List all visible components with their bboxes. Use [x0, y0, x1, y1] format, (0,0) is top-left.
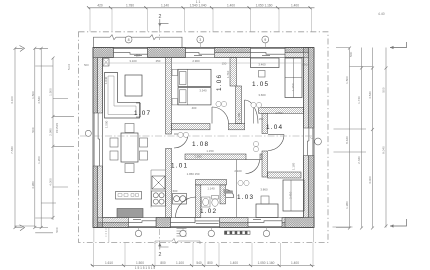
sofa L-shape living room [105, 73, 141, 119]
section mark 2 bottom with tick line [155, 239, 200, 259]
svg-text:250: 250 [156, 59, 161, 63]
wall face lines [93, 48, 314, 228]
svg-text:540: 540 [196, 261, 202, 265]
interior door-tag bubble pairs [178, 101, 262, 185]
svg-text:3.460: 3.460 [258, 63, 266, 67]
svg-text:1.760: 1.760 [275, 111, 283, 115]
interior dim line below top wall [104, 59, 308, 67]
svg-text:1.540 1.040: 1.540 1.040 [190, 4, 207, 8]
svg-text:1.500: 1.500 [136, 261, 144, 265]
LEFT margin dimension lines [15, 48, 53, 227]
svg-text:1.500: 1.500 [49, 88, 53, 96]
svg-text:1.100: 1.100 [176, 261, 184, 265]
washer dryer [173, 194, 187, 205]
bottom dimension texts [105, 261, 299, 270]
grid bubble left on section line [85, 130, 91, 136]
scale bar [225, 231, 251, 234]
svg-text:9: 9 [264, 38, 266, 42]
bottom grid bubbles [135, 228, 269, 237]
svg-text:1.100: 1.100 [237, 112, 241, 120]
svg-text:1.05: 1.05 [252, 81, 269, 88]
svg-text:3.860: 3.860 [260, 188, 268, 192]
svg-text:2.960: 2.960 [192, 59, 200, 63]
stove 4 burners [152, 191, 166, 206]
svg-text:3.650: 3.650 [194, 155, 202, 159]
nightstands 1.06 [172, 69, 178, 75]
svg-text:1.02: 1.02 [200, 208, 217, 215]
svg-text:1.140: 1.140 [161, 4, 169, 8]
svg-text:1 5 1 5 1 5 1 5: 1 5 1 5 1 5 1 5 [135, 266, 156, 270]
interior wall W1 vertical (living | halls) [166, 58, 172, 135]
door D4 to 1.04 [268, 135, 284, 151]
BOTTOM dimension line [91, 264, 315, 267]
svg-text:2: 2 [159, 252, 162, 258]
corner block bottom-right full checker [285, 218, 314, 228]
right tick marks [333, 47, 388, 230]
pier full checker bottom wall [156, 218, 171, 228]
svg-text:1.050 1.160: 1.050 1.160 [258, 261, 275, 265]
svg-text:8.640: 8.640 [345, 136, 349, 144]
svg-text:150: 150 [259, 117, 264, 121]
svg-text:1.400: 1.400 [291, 261, 299, 265]
section line 1-1 horizontal dash-dot [80, 135, 314, 137]
dining chairs [110, 124, 148, 173]
wardrobe 1.03 [283, 180, 304, 211]
svg-text:1.400: 1.400 [230, 261, 238, 265]
bathroom right partition [220, 185, 226, 204]
washbasin 1.02 [202, 197, 211, 207]
window bottom 1 [129, 217, 157, 228]
svg-text:4.980: 4.980 [31, 181, 35, 189]
svg-text:1.610: 1.610 [105, 261, 113, 265]
window top 1 [114, 47, 148, 58]
svg-text:1.01: 1.01 [171, 163, 188, 170]
interior wall H3 (1.04 bottom) [268, 172, 302, 178]
svg-text:560: 560 [303, 63, 308, 67]
svg-text:1.710: 1.710 [226, 70, 230, 78]
svg-text:1.980: 1.980 [345, 201, 349, 209]
eaves line top-left [94, 35, 183, 48]
svg-text:1.500: 1.500 [31, 91, 35, 99]
bed 1.06 lower [178, 88, 211, 105]
svg-text:2.410: 2.410 [289, 191, 293, 199]
kitchen counter island [116, 192, 142, 200]
coffee table [125, 75, 142, 96]
interior wall H4 (1.08 bottom) [185, 154, 246, 160]
svg-text:2.100: 2.100 [234, 169, 242, 173]
dotted mark below wall left [105, 229, 107, 237]
svg-text:500: 500 [382, 87, 386, 92]
svg-text:4.530: 4.530 [37, 96, 41, 104]
section line 2-2 vertical stubs [159, 27, 161, 249]
door D1 living to hall [174, 134, 188, 148]
svg-text:5.04: 5.04 [67, 64, 71, 70]
exterior wall right [304, 48, 315, 228]
desk 1.03 [256, 204, 278, 218]
svg-text:1.500: 1.500 [105, 120, 109, 128]
scattered interior dim texts [173, 89, 283, 194]
svg-text:7.830: 7.830 [10, 146, 14, 154]
chair 1.05 [259, 71, 266, 78]
svg-text:500: 500 [55, 227, 59, 232]
svg-text:1.400: 1.400 [227, 4, 235, 8]
entrance steps [177, 229, 187, 237]
door D8 hall to 1.03 zone [246, 160, 260, 174]
svg-text:400: 400 [192, 106, 197, 110]
svg-text:500: 500 [31, 127, 35, 132]
window bottom 2 [248, 217, 282, 228]
svg-text:1.06: 1.06 [216, 74, 223, 91]
pier full checker top wall [148, 48, 186, 58]
chimney block with X [152, 176, 165, 189]
svg-text:3.540: 3.540 [199, 89, 207, 93]
svg-text:500: 500 [84, 63, 89, 67]
svg-text:154: 154 [136, 54, 141, 58]
interior wall W2 (1.06 | 1.05) [230, 58, 237, 87]
right rotated dim texts [345, 12, 386, 209]
corner block top-left full checker [93, 48, 114, 58]
svg-text:1.950 150: 1.950 150 [187, 172, 200, 176]
grid bubble right on section line [310, 138, 321, 145]
svg-text:4.530: 4.530 [368, 91, 372, 99]
svg-text:3.100: 3.100 [129, 59, 137, 63]
svg-text:3.000: 3.000 [368, 176, 372, 184]
interior wall H1 horizontal (1.06 bottom) [172, 124, 211, 130]
svg-text:3: 3 [199, 38, 201, 42]
bathroom top wall [196, 180, 227, 185]
interior wall H2 (1.05 bottom) [259, 107, 304, 113]
svg-text:3.660: 3.660 [258, 93, 266, 97]
svg-text:800: 800 [207, 261, 213, 265]
svg-text:150: 150 [222, 62, 227, 66]
TOP dimension line [87, 6, 315, 9]
door D3 hall opening leaf [245, 100, 259, 124]
RIGHT margin dimension lines [336, 48, 386, 228]
door D2 hall to 1.06 [212, 107, 229, 124]
window top 2 [186, 47, 215, 58]
duct top-left corner [103, 59, 109, 67]
kitchen base dark counter [117, 209, 143, 218]
svg-text:151515: 151515 [55, 123, 59, 134]
top extension lines [90, 8, 312, 32]
svg-text:8: 8 [128, 38, 130, 42]
svg-text:1.08: 1.08 [192, 141, 209, 148]
svg-text:1.150: 1.150 [206, 149, 214, 153]
entrance door and sidelight glazing [171, 217, 220, 228]
svg-text:420: 420 [97, 4, 103, 8]
exterior wall left [93, 48, 103, 228]
svg-text:1.400: 1.400 [291, 4, 299, 8]
roof overhang dash-dot rectangle [79, 32, 329, 243]
svg-text:1.140: 1.140 [207, 187, 215, 191]
left rotated dim texts [10, 63, 89, 233]
wardrobe 1.05 [285, 58, 302, 98]
window right [303, 128, 314, 156]
kitchen counter strip [151, 170, 166, 208]
hall/1.03 divider line [236, 160, 238, 218]
top grid bubbles [125, 36, 268, 47]
door D6 entrance [175, 197, 196, 218]
svg-text:4.40: 4.40 [378, 12, 385, 16]
svg-text:3.100: 3.100 [10, 96, 14, 104]
svg-text:1.03: 1.03 [237, 194, 254, 201]
interior wall W3 (1.04 left) [262, 113, 268, 133]
svg-text:2.330: 2.330 [357, 156, 361, 164]
small dark tag near 1.03 [225, 191, 233, 194]
svg-text:1.185: 1.185 [292, 162, 296, 170]
svg-text:1.500: 1.500 [345, 76, 349, 84]
svg-text:1.07: 1.07 [134, 110, 151, 117]
dining table [121, 133, 138, 162]
svg-text:600: 600 [173, 189, 178, 193]
svg-text:1.350: 1.350 [291, 83, 295, 91]
bottom extension lines [94, 243, 313, 266]
window left [93, 113, 103, 166]
exterior wall bottom [93, 218, 314, 228]
svg-text:1.050 1.160: 1.050 1.160 [256, 4, 273, 8]
left margin arrows [15, 46, 25, 231]
svg-text:1 1: 1 1 [196, 0, 201, 4]
svg-text:500: 500 [349, 52, 353, 57]
top dimension texts [97, 0, 299, 8]
toilet 1.02 [212, 196, 219, 207]
svg-text:8.040: 8.040 [382, 146, 386, 154]
window top 3 [251, 47, 286, 58]
extension stubs wall to roof line [94, 228, 313, 243]
left tick marks [14, 47, 75, 233]
chair 1.03 [261, 196, 269, 204]
svg-text:1.200: 1.200 [37, 156, 41, 164]
svg-text:800: 800 [160, 261, 166, 265]
desk 1.05 [251, 58, 280, 68]
svg-text:1.780: 1.780 [126, 4, 134, 8]
svg-text:1.04: 1.04 [266, 124, 283, 131]
bed 1.06 upper [178, 69, 211, 86]
door D5 to 1.02 [226, 190, 234, 198]
section mark 2 top [158, 14, 168, 27]
svg-text:1.040: 1.040 [104, 76, 108, 84]
right margin arrows [390, 42, 407, 228]
bathroom left wall [196, 185, 201, 218]
svg-text:4.000: 4.000 [49, 178, 53, 186]
svg-text:2.980: 2.980 [49, 128, 53, 136]
exterior wall top [93, 48, 314, 58]
svg-text:1.740: 1.740 [357, 96, 361, 104]
